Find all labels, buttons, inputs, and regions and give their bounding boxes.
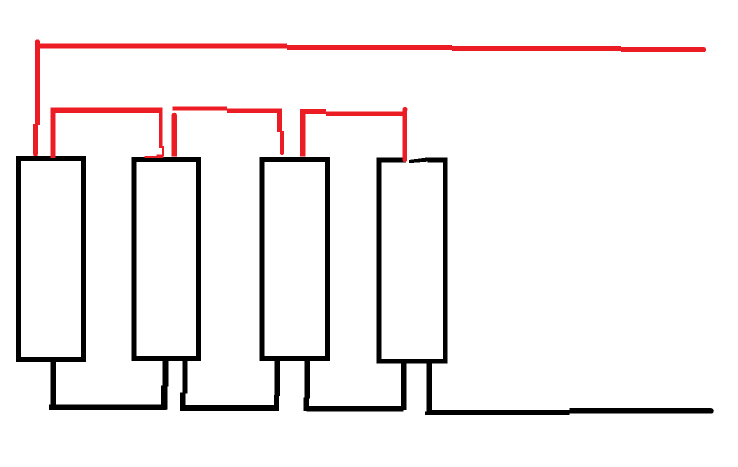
wire red: top bus horizontal — [35, 44, 706, 53]
wire red: jumper cell3 to cell4 riser — [300, 111, 305, 156]
wire red: jumper cell2 to cell3 horizontal — [172, 106, 280, 112]
cell 4 — [379, 160, 445, 361]
wire red: jumper cell3 to cell4 horizontal — [300, 109, 404, 116]
wire black: bottom bus cell1-cell2 — [49, 404, 167, 410]
wire red: jumper cell2 to cell3 riser — [172, 113, 178, 157]
wire black: bottom bus cell2-cell3 — [183, 405, 277, 411]
wire black: cell3 bottom-right lead — [304, 361, 310, 411]
wire black: bottom bus cell3-cell4 — [307, 406, 404, 412]
cell 2 — [134, 159, 199, 358]
wire black: cell2 bottom-right lead — [180, 361, 188, 411]
gap in cell 4 top edge — [406, 156, 428, 164]
wire red: jumper cell2 to cell3 drop — [277, 108, 284, 155]
wire red: jumper cell1 to cell2 riser — [50, 110, 55, 158]
wire black: cell2 bottom-left lead — [161, 361, 169, 410]
wire black: cell3 bottom-left lead — [274, 361, 280, 411]
wire black: cell1 bottom lead — [50, 361, 56, 410]
cell 1 — [19, 159, 84, 360]
wire black: cell4 bottom-right lead — [425, 364, 432, 415]
cell 3 — [262, 159, 328, 358]
wire red: jumper cell1 to cell2 drop — [145, 108, 165, 159]
wire red: jumper cell3 to cell4 drop — [403, 107, 408, 162]
wire red: top bus drop to cell1 left terminal — [33, 39, 40, 156]
wire black: cell4 bottom-left lead — [401, 363, 407, 410]
wire black: bottom output run — [429, 408, 714, 415]
wire red: jumper cell1 to cell2 horizontal — [50, 108, 162, 113]
